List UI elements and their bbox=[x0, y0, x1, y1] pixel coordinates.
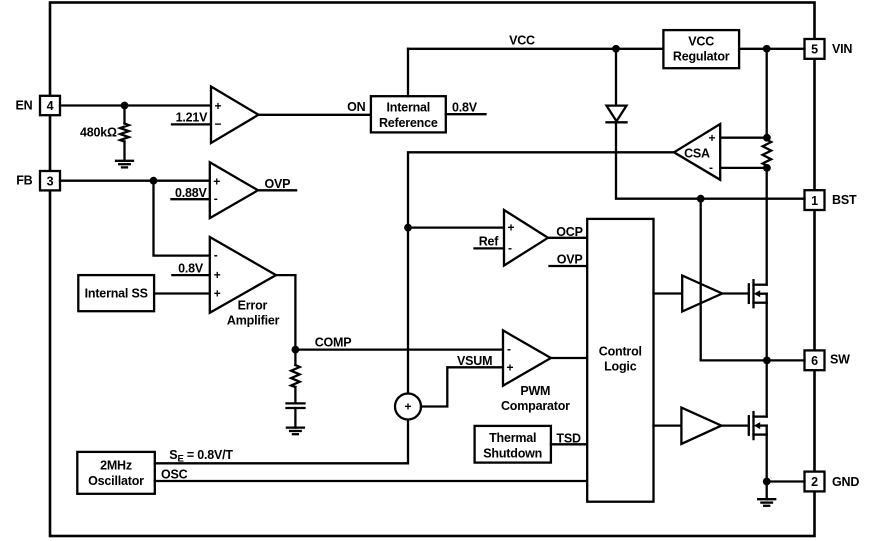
wire CSA plus input bbox=[720, 137, 767, 139]
wire PWM output to control logic bbox=[551, 357, 587, 359]
op-amp CSA current sense amplifier bbox=[674, 124, 720, 180]
op-amp EN comparator bbox=[211, 87, 259, 144]
wire FB pin to OVP comparator bbox=[60, 180, 210, 182]
svg-text:Amplifier: Amplifier bbox=[227, 314, 280, 328]
transistor Q1 high-side NMOS bbox=[749, 280, 767, 307]
svg-text:+: + bbox=[508, 221, 515, 235]
svg-text:+: + bbox=[709, 131, 716, 145]
wire summing node output to PWM comparator VSUM bbox=[421, 367, 503, 406]
wire COMP to PWM comparator bbox=[295, 348, 503, 350]
node VIN branch junction bbox=[763, 45, 771, 53]
node OCP branch junction bbox=[404, 224, 412, 232]
svg-text:VIN: VIN bbox=[832, 42, 852, 56]
svg-text:Error: Error bbox=[238, 299, 268, 313]
svg-text:VCC: VCC bbox=[688, 34, 714, 48]
wire Internal Reference to VCC rail bbox=[407, 49, 409, 96]
op-amp OCP comparator bbox=[504, 210, 548, 266]
wire 0.8V reference stub to error amplifier bbox=[172, 274, 209, 276]
svg-text:Control: Control bbox=[599, 344, 642, 358]
wire TSD to control logic bbox=[551, 443, 587, 445]
svg-text:Ref: Ref bbox=[479, 235, 500, 249]
svg-text:VCC: VCC bbox=[509, 34, 535, 48]
svg-text:0.88V: 0.88V bbox=[175, 186, 208, 200]
wire high-side drain to VIN rail bbox=[766, 168, 768, 285]
svg-text:Regulator: Regulator bbox=[673, 50, 730, 64]
wire low-side source to GND bbox=[766, 435, 768, 482]
ground power ground symbol bbox=[758, 499, 775, 506]
wire high-side source to SW bbox=[766, 303, 768, 361]
svg-text:2MHz: 2MHz bbox=[100, 458, 132, 472]
svg-text:Oscillator: Oscillator bbox=[88, 474, 144, 488]
wire OVP stub to control logic bbox=[550, 265, 588, 267]
wire 0.88V reference stub bbox=[172, 198, 210, 200]
svg-text:OVP: OVP bbox=[265, 177, 291, 191]
buffer low-side gate driver bbox=[681, 408, 721, 444]
pin 6 (SW) bbox=[805, 350, 825, 370]
block Control Logic bbox=[587, 219, 653, 502]
wire VIN rail down to CSA plus input bbox=[766, 49, 768, 138]
svg-text:1.21V: 1.21V bbox=[176, 110, 209, 124]
svg-text:+: + bbox=[404, 400, 411, 414]
block Thermal Shutdown bbox=[475, 426, 551, 463]
svg-text:PWM: PWM bbox=[520, 384, 550, 398]
wire diode anode branch bbox=[615, 49, 617, 106]
svg-text:Reference: Reference bbox=[379, 116, 438, 130]
wire Ref stub to OCP comparator bbox=[475, 247, 505, 249]
svg-text:OVP: OVP bbox=[557, 252, 583, 266]
svg-text:OCP: OCP bbox=[556, 225, 583, 239]
node COMP junction bbox=[292, 346, 300, 354]
svg-text:Shutdown: Shutdown bbox=[483, 446, 542, 460]
resistor 480kohm bbox=[120, 106, 129, 161]
svg-text:GND: GND bbox=[832, 475, 859, 489]
svg-text:ON: ON bbox=[347, 100, 366, 114]
svg-text:-: - bbox=[214, 192, 218, 206]
ground below COMP capacitor bbox=[287, 428, 304, 435]
node SW junction bbox=[763, 357, 771, 365]
ground below 480k resistor bbox=[116, 161, 133, 168]
svg-text:−: − bbox=[215, 117, 222, 131]
node GND junction bbox=[763, 478, 771, 486]
buffer high-side gate driver bbox=[682, 276, 722, 312]
svg-text:Comparator: Comparator bbox=[501, 399, 570, 413]
wire OSC to control logic bbox=[155, 480, 587, 482]
wire OCP comparator input bbox=[408, 226, 504, 228]
block Internal SS bbox=[78, 275, 154, 311]
resistor current sense bbox=[763, 140, 772, 166]
summing node adder bbox=[395, 394, 421, 420]
op-amp OVP comparator bbox=[210, 162, 258, 218]
wire VCC rail bbox=[408, 48, 663, 50]
wire OCP output to control logic bbox=[548, 237, 587, 239]
block Internal Reference U2 bbox=[371, 96, 446, 132]
svg-text:-: - bbox=[709, 160, 713, 174]
svg-text:3: 3 bbox=[47, 174, 54, 188]
svg-text:+: + bbox=[215, 99, 222, 113]
svg-text:+: + bbox=[213, 175, 220, 189]
svg-text:FB: FB bbox=[16, 174, 32, 188]
wire GND junction to ground bbox=[766, 482, 768, 500]
svg-text:6: 6 bbox=[811, 354, 818, 368]
pin 3 (FB) bbox=[40, 171, 60, 190]
svg-text:SW: SW bbox=[830, 353, 850, 367]
node EN/480k junction bbox=[121, 102, 129, 110]
wire low-side drain to SW bbox=[766, 360, 768, 416]
svg-text:-: - bbox=[507, 342, 511, 356]
node CSA minus junction bbox=[763, 164, 771, 172]
wire BST branch down to SW bbox=[701, 199, 805, 361]
wire FB branch down to error amplifier bbox=[154, 181, 210, 256]
pin 5 (VIN) bbox=[805, 39, 825, 59]
svg-text:+: + bbox=[214, 268, 221, 282]
svg-text:4: 4 bbox=[47, 99, 54, 113]
pin 1 (BST) bbox=[805, 190, 825, 210]
block 2MHz Oscillator bbox=[77, 452, 155, 494]
svg-text:Internal SS: Internal SS bbox=[85, 287, 148, 301]
node FB junction bbox=[150, 177, 158, 185]
op-amp U1 Error Amplifier bbox=[210, 237, 276, 313]
wire control logic to low-side driver bbox=[654, 424, 682, 426]
svg-text:CSA: CSA bbox=[684, 147, 710, 161]
wire 0.8V reference output stub bbox=[446, 113, 486, 115]
node BST branch junction bbox=[697, 195, 705, 203]
svg-text:0.8V: 0.8V bbox=[452, 100, 478, 114]
wire control logic to high-side driver bbox=[654, 292, 683, 294]
svg-text:COMP: COMP bbox=[315, 336, 352, 350]
svg-text:+: + bbox=[214, 287, 221, 301]
svg-text:Thermal: Thermal bbox=[489, 431, 536, 445]
svg-text:0.8V: 0.8V bbox=[178, 262, 204, 276]
pin 2 (GND) bbox=[805, 472, 825, 492]
wire Internal SS to error amplifier bbox=[154, 292, 210, 294]
svg-text:480kΩ: 480kΩ bbox=[80, 126, 117, 140]
wire CSA minus input bbox=[720, 167, 767, 169]
wire low-side gate bbox=[721, 424, 748, 426]
pin 4 (EN) bbox=[40, 96, 60, 115]
transistor Q2 low-side NMOS bbox=[749, 412, 767, 439]
svg-text:VSUM: VSUM bbox=[457, 354, 492, 368]
wire diode cathode to BST bbox=[616, 122, 805, 198]
svg-text:1: 1 bbox=[811, 194, 818, 208]
svg-text:2: 2 bbox=[811, 475, 818, 489]
wire error amplifier output to COMP bbox=[276, 275, 295, 350]
svg-text:5: 5 bbox=[811, 43, 818, 57]
node VCC/diode junction bbox=[612, 45, 620, 53]
wire CSA output / current sense rail (vertical) bbox=[408, 152, 674, 393]
wire VCC regulator output to VIN pin bbox=[739, 48, 804, 50]
svg-text:Internal: Internal bbox=[387, 100, 431, 114]
svg-text:-: - bbox=[214, 248, 218, 262]
wire GND junction to GND pin bbox=[767, 480, 805, 482]
node CSA plus junction bbox=[763, 134, 771, 142]
op-amp PWM comparator bbox=[503, 330, 551, 385]
block VCC Regulator bbox=[663, 30, 739, 68]
resistor COMP compensation bbox=[291, 350, 300, 403]
wire high-side gate bbox=[722, 292, 749, 294]
svg-text:EN: EN bbox=[16, 98, 33, 112]
capacitor COMP compensation bbox=[287, 403, 305, 427]
wire EN comparator output ON bbox=[259, 114, 371, 116]
wire 1.21V reference stub bbox=[172, 123, 211, 125]
diode D1 bootstrap bbox=[607, 106, 627, 123]
svg-text:Logic: Logic bbox=[604, 360, 637, 374]
wire OVP comparator output bbox=[258, 189, 296, 191]
svg-text:TSD: TSD bbox=[556, 431, 581, 445]
wire SE slope ramp to summing node bbox=[155, 420, 408, 464]
svg-text:+: + bbox=[507, 361, 514, 375]
svg-text:OSC: OSC bbox=[161, 468, 188, 482]
wire EN pin to EN comparator bbox=[60, 104, 211, 106]
svg-text:-: - bbox=[508, 241, 512, 255]
svg-text:BST: BST bbox=[832, 193, 857, 207]
